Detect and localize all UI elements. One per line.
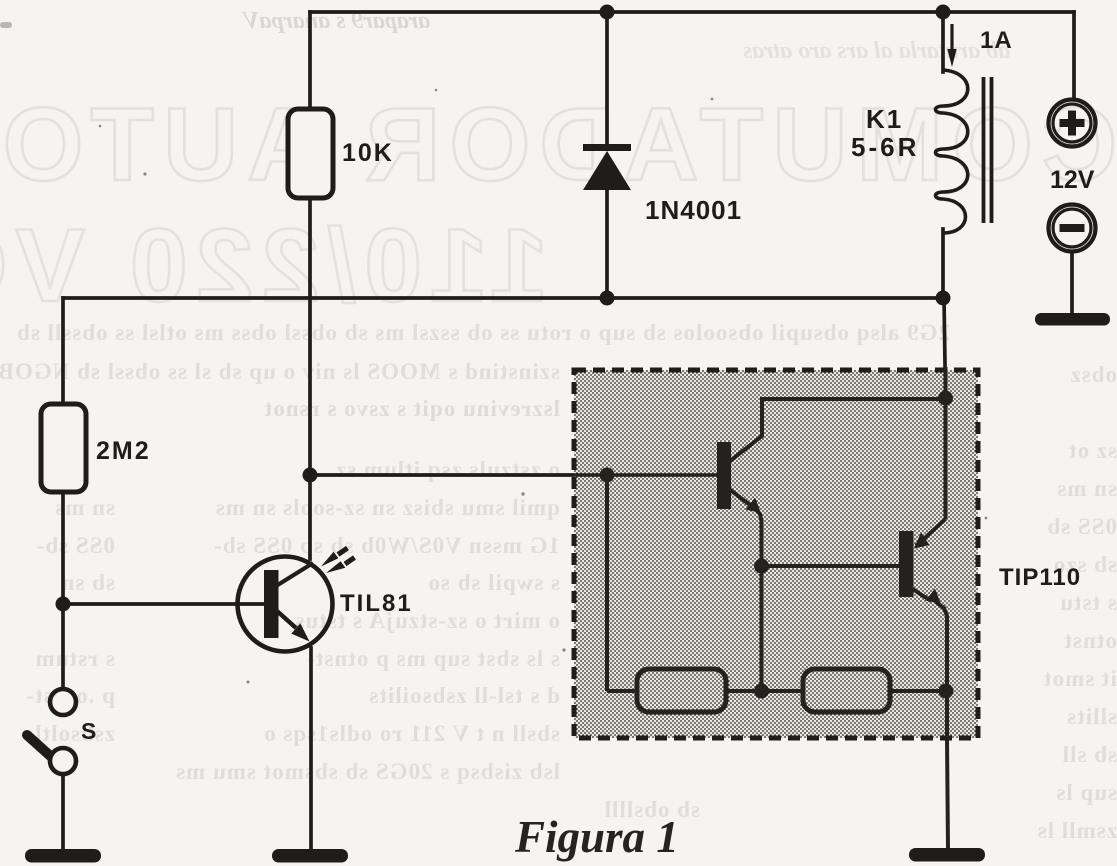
svg-text:lszrevinu oqit s zsvo s rsnot: lszrevinu oqit s zsvo s rsnot — [264, 396, 560, 421]
svg-text:otnst: otnst — [1063, 628, 1117, 653]
node: base entry — [600, 468, 615, 483]
svg-text:TIL81: TIL81 — [340, 590, 413, 617]
TIP110 internals — [574, 367, 948, 849]
svg-text:obsz: obsz — [1070, 362, 1117, 387]
phototransistor TIL81 — [63, 548, 355, 652]
TIL81 emitter arrowhead — [291, 623, 309, 641]
Q1 emitter diagonal — [729, 489, 750, 505]
bleed body rows — [0, 320, 1117, 843]
svg-text:s rstum: s rstum — [35, 646, 115, 671]
node: 2M2 / TIL81 base — [56, 597, 71, 612]
svg-text:sb sll: sb sll — [1062, 742, 1117, 767]
wire: base entry inside box — [574, 473, 718, 477]
wire: base drive TIL81 collector to Q1 — [310, 473, 718, 477]
wire: TIL81 emitter to ground — [309, 648, 313, 850]
svg-text:qmil smu sbisz sn sz-sools: qmil smu sbisz sn sz-sools sn ms — [215, 495, 560, 520]
wire: Q1 collector to top rail — [730, 399, 946, 461]
svg-text:sllits: sllits — [1066, 704, 1117, 729]
svg-text:ab arutarla al ars aro atras: ab arutarla al ars aro atras — [743, 38, 1010, 64]
TIL81 light arrow b — [326, 558, 355, 574]
wire: Q2 emitter bend — [936, 602, 947, 691]
wire: right corner down to + terminal — [1072, 12, 1076, 99]
TIL81 base wire — [63, 602, 265, 606]
wire: minus terminal to ground — [1070, 252, 1074, 314]
wire: Q2 collector diagonal — [916, 519, 946, 546]
node: relay / left rail — [936, 291, 951, 306]
svg-text:s swpil sb so: s swpil sb so — [427, 570, 560, 595]
internal resistor Rb — [803, 669, 890, 712]
svg-text:2G9 alsq obsupil obsoolos sb s: 2G9 alsq obsupil obsoolos sb sup o rotu … — [16, 320, 950, 345]
svg-text:lsb zisbsq s 20GS sb sbsmot: lsb zisbsq s 20GS sb sbsmot smu ms — [175, 759, 560, 784]
wire: diode anode to rail — [605, 188, 609, 298]
svg-text:s ls sbst sup ms p otnst-: s ls sbst sup ms p otnst- — [306, 646, 560, 671]
wire: relay top feed — [941, 12, 945, 72]
svg-text:2M2: 2M2 — [96, 437, 151, 465]
switch S lever — [27, 735, 57, 762]
ground: TIL81 emitter — [272, 849, 348, 863]
wire: Q2 base rail — [762, 564, 900, 568]
relay K1 core — [984, 77, 992, 223]
wire: box right vertical top — [944, 367, 948, 519]
wire: box exit to ground — [947, 691, 948, 849]
svg-text:szinstind s MOOS ls niv o up s: szinstind s MOOS ls niv o up sb sl ss ob… — [0, 359, 560, 384]
svg-text:TIP110: TIP110 — [999, 564, 1081, 591]
svg-text:K1: K1 — [866, 104, 903, 134]
wire: 10K bottom down to TIL81 collector — [308, 197, 312, 559]
svg-text:Figura 1: Figura 1 — [514, 812, 679, 862]
internal junction dots — [600, 391, 954, 699]
wire: bottom resistor rail — [607, 689, 946, 693]
supply - terminal — [1049, 205, 1096, 252]
TIP110 shaded package box — [574, 370, 978, 738]
wire: relay bottom to rail — [941, 229, 945, 298]
wire: left column to 2M2 — [61, 298, 65, 404]
svg-text:sb sn: sb sn — [61, 570, 115, 595]
transistor Q1 — [717, 442, 761, 513]
ground: TIP110 emitter — [909, 848, 985, 862]
svg-text:S: S — [81, 718, 96, 744]
wire: diode branch — [605, 12, 609, 146]
wire: base entry column — [605, 475, 609, 691]
TIL81 light arrow a — [321, 548, 348, 567]
Q2 emitter arrowhead — [926, 589, 942, 605]
node: top rail / diode — [600, 5, 615, 20]
node: resistor rail mid — [754, 684, 769, 699]
svg-text:12V: 12V — [1050, 166, 1095, 194]
svg-text:s tstu: s tstu — [1059, 590, 1117, 615]
svg-text:1N4001: 1N4001 — [645, 195, 742, 225]
Q2 emitter diagonal — [911, 588, 931, 601]
svg-text:0SS sb-: 0SS sb- — [36, 533, 115, 558]
TIL81 base bar — [264, 570, 279, 638]
switch S upper contact — [50, 689, 76, 715]
node: resistor rail right — [939, 684, 954, 699]
internal resistor Ra — [637, 669, 726, 712]
Q2 base bar — [899, 531, 914, 597]
svg-text:110/220 VO: 110/220 VO — [0, 208, 548, 324]
wire: relay node down into TIP110 box — [944, 298, 946, 397]
svg-text:sn ms: sn ms — [1056, 476, 1117, 501]
diode D1 1N4001 — [583, 144, 631, 190]
svg-text:it smot: it smot — [1043, 666, 1117, 691]
wire: switch bottom to ground — [61, 773, 65, 851]
wire: top +12V rail — [310, 10, 1074, 14]
svg-text:o zstzuls zsq itlum sz: o zstzuls zsq itlum sz — [335, 457, 560, 482]
wire: 10K top feed — [308, 12, 312, 109]
svg-text:sbsll n t V 211 ro odls1sqs o: sbsll n t V 211 ro odls1sqs o — [263, 721, 560, 746]
TIL81 body circle — [238, 557, 333, 652]
edge mark top-left — [0, 22, 12, 28]
svg-text:sup ls: sup ls — [1055, 780, 1117, 805]
wire: left rail y=298 — [63, 296, 942, 300]
transistor Q2 — [899, 531, 941, 604]
Q1 base bar — [717, 442, 731, 509]
node: Q1 emitter / Q2 base — [754, 559, 769, 574]
wire: Q1 emitter column — [760, 566, 764, 691]
ground: switch — [25, 849, 101, 863]
svg-text:d s tsl-ll zsbsoilits: d s tsl-ll zsbsoilits — [368, 683, 560, 708]
supply + terminal — [1049, 100, 1096, 147]
TIL81 emitter stroke — [277, 611, 296, 628]
scan speckles — [99, 89, 988, 684]
Q2 collector arrowhead — [914, 533, 930, 549]
TIL81 collector stroke — [276, 563, 313, 586]
wire: 2M2 bottom to switch — [61, 492, 65, 690]
switch S lower contact — [50, 748, 76, 774]
node: TIL81 collector / base drive — [303, 468, 318, 483]
svg-text:1G mssn V0S/W0b sb sb 0SS sb: 1G mssn V0S/W0b sb sb 0SS sb- — [213, 533, 560, 558]
Q1 emitter arrowhead — [746, 498, 762, 514]
svg-text:o mirt o sz-stzujA s tstu: o mirt o sz-stzujA s tstus — [294, 608, 560, 633]
wire: Q1 emitter bend — [755, 509, 762, 566]
node: top rail / relay — [936, 5, 951, 20]
node: top rail right — [938, 391, 953, 406]
relay K1 coil — [936, 70, 968, 233]
resistor R2 2M2 — [41, 404, 86, 492]
svg-text:5-6R: 5-6R — [851, 132, 919, 162]
faint top fragments — [241, 8, 1010, 64]
svg-text:zsmll ls: zsmll ls — [1037, 818, 1117, 843]
svg-text:sz ot: sz ot — [1068, 438, 1117, 463]
node: diode / left rail — [600, 291, 615, 306]
resistor R1 10K — [288, 109, 333, 198]
arrow 1A current — [947, 24, 956, 67]
svg-text:10K: 10K — [342, 139, 394, 167]
svg-text:0SS sb: 0SS sb — [1046, 514, 1117, 539]
ground: supply — [1035, 313, 1110, 326]
svg-text:1A: 1A — [980, 27, 1013, 54]
